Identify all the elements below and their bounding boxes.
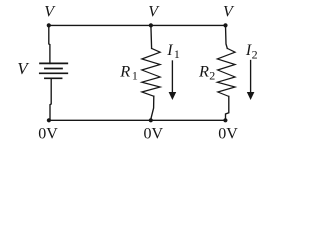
svg-text:R: R <box>198 62 209 81</box>
current arrow I2 stem <box>250 61 252 93</box>
resistor R2 zigzag <box>217 48 235 96</box>
node top-left junction dot <box>47 23 51 27</box>
svg-text:V: V <box>148 4 160 21</box>
wire R2 bottom lead <box>226 96 229 120</box>
node bottom-left junction dot <box>47 118 51 122</box>
current arrow I1 stem <box>171 61 173 93</box>
node top-middle junction dot <box>149 23 153 27</box>
arrowhead I1 <box>169 92 177 100</box>
svg-text:0V: 0V <box>218 126 238 143</box>
wire battery top lead <box>49 25 50 63</box>
wire R1 bottom lead <box>151 96 154 120</box>
node bottom-middle junction dot <box>149 118 153 122</box>
node top-right junction dot <box>223 23 227 27</box>
svg-text:R: R <box>119 62 130 81</box>
node bottom-right junction dot <box>223 118 227 122</box>
resistor R1 zigzag <box>142 48 160 96</box>
wire bottom rail <box>49 119 226 121</box>
svg-text:I: I <box>166 42 173 59</box>
arrowhead I2 <box>247 92 255 100</box>
svg-text:2: 2 <box>209 68 215 82</box>
svg-text:0V: 0V <box>38 126 58 143</box>
battery V plates <box>40 63 68 78</box>
svg-text:2: 2 <box>252 47 258 61</box>
svg-text:0V: 0V <box>144 126 164 143</box>
svg-text:1: 1 <box>174 47 180 61</box>
svg-text:V: V <box>223 4 235 21</box>
wire battery bottom lead <box>50 78 51 120</box>
svg-text:V: V <box>17 59 30 78</box>
wire top rail <box>49 24 226 26</box>
svg-text:V: V <box>44 4 56 21</box>
wire R2 top lead <box>226 25 228 48</box>
svg-text:1: 1 <box>132 68 138 82</box>
wire R1 top lead <box>150 25 153 48</box>
